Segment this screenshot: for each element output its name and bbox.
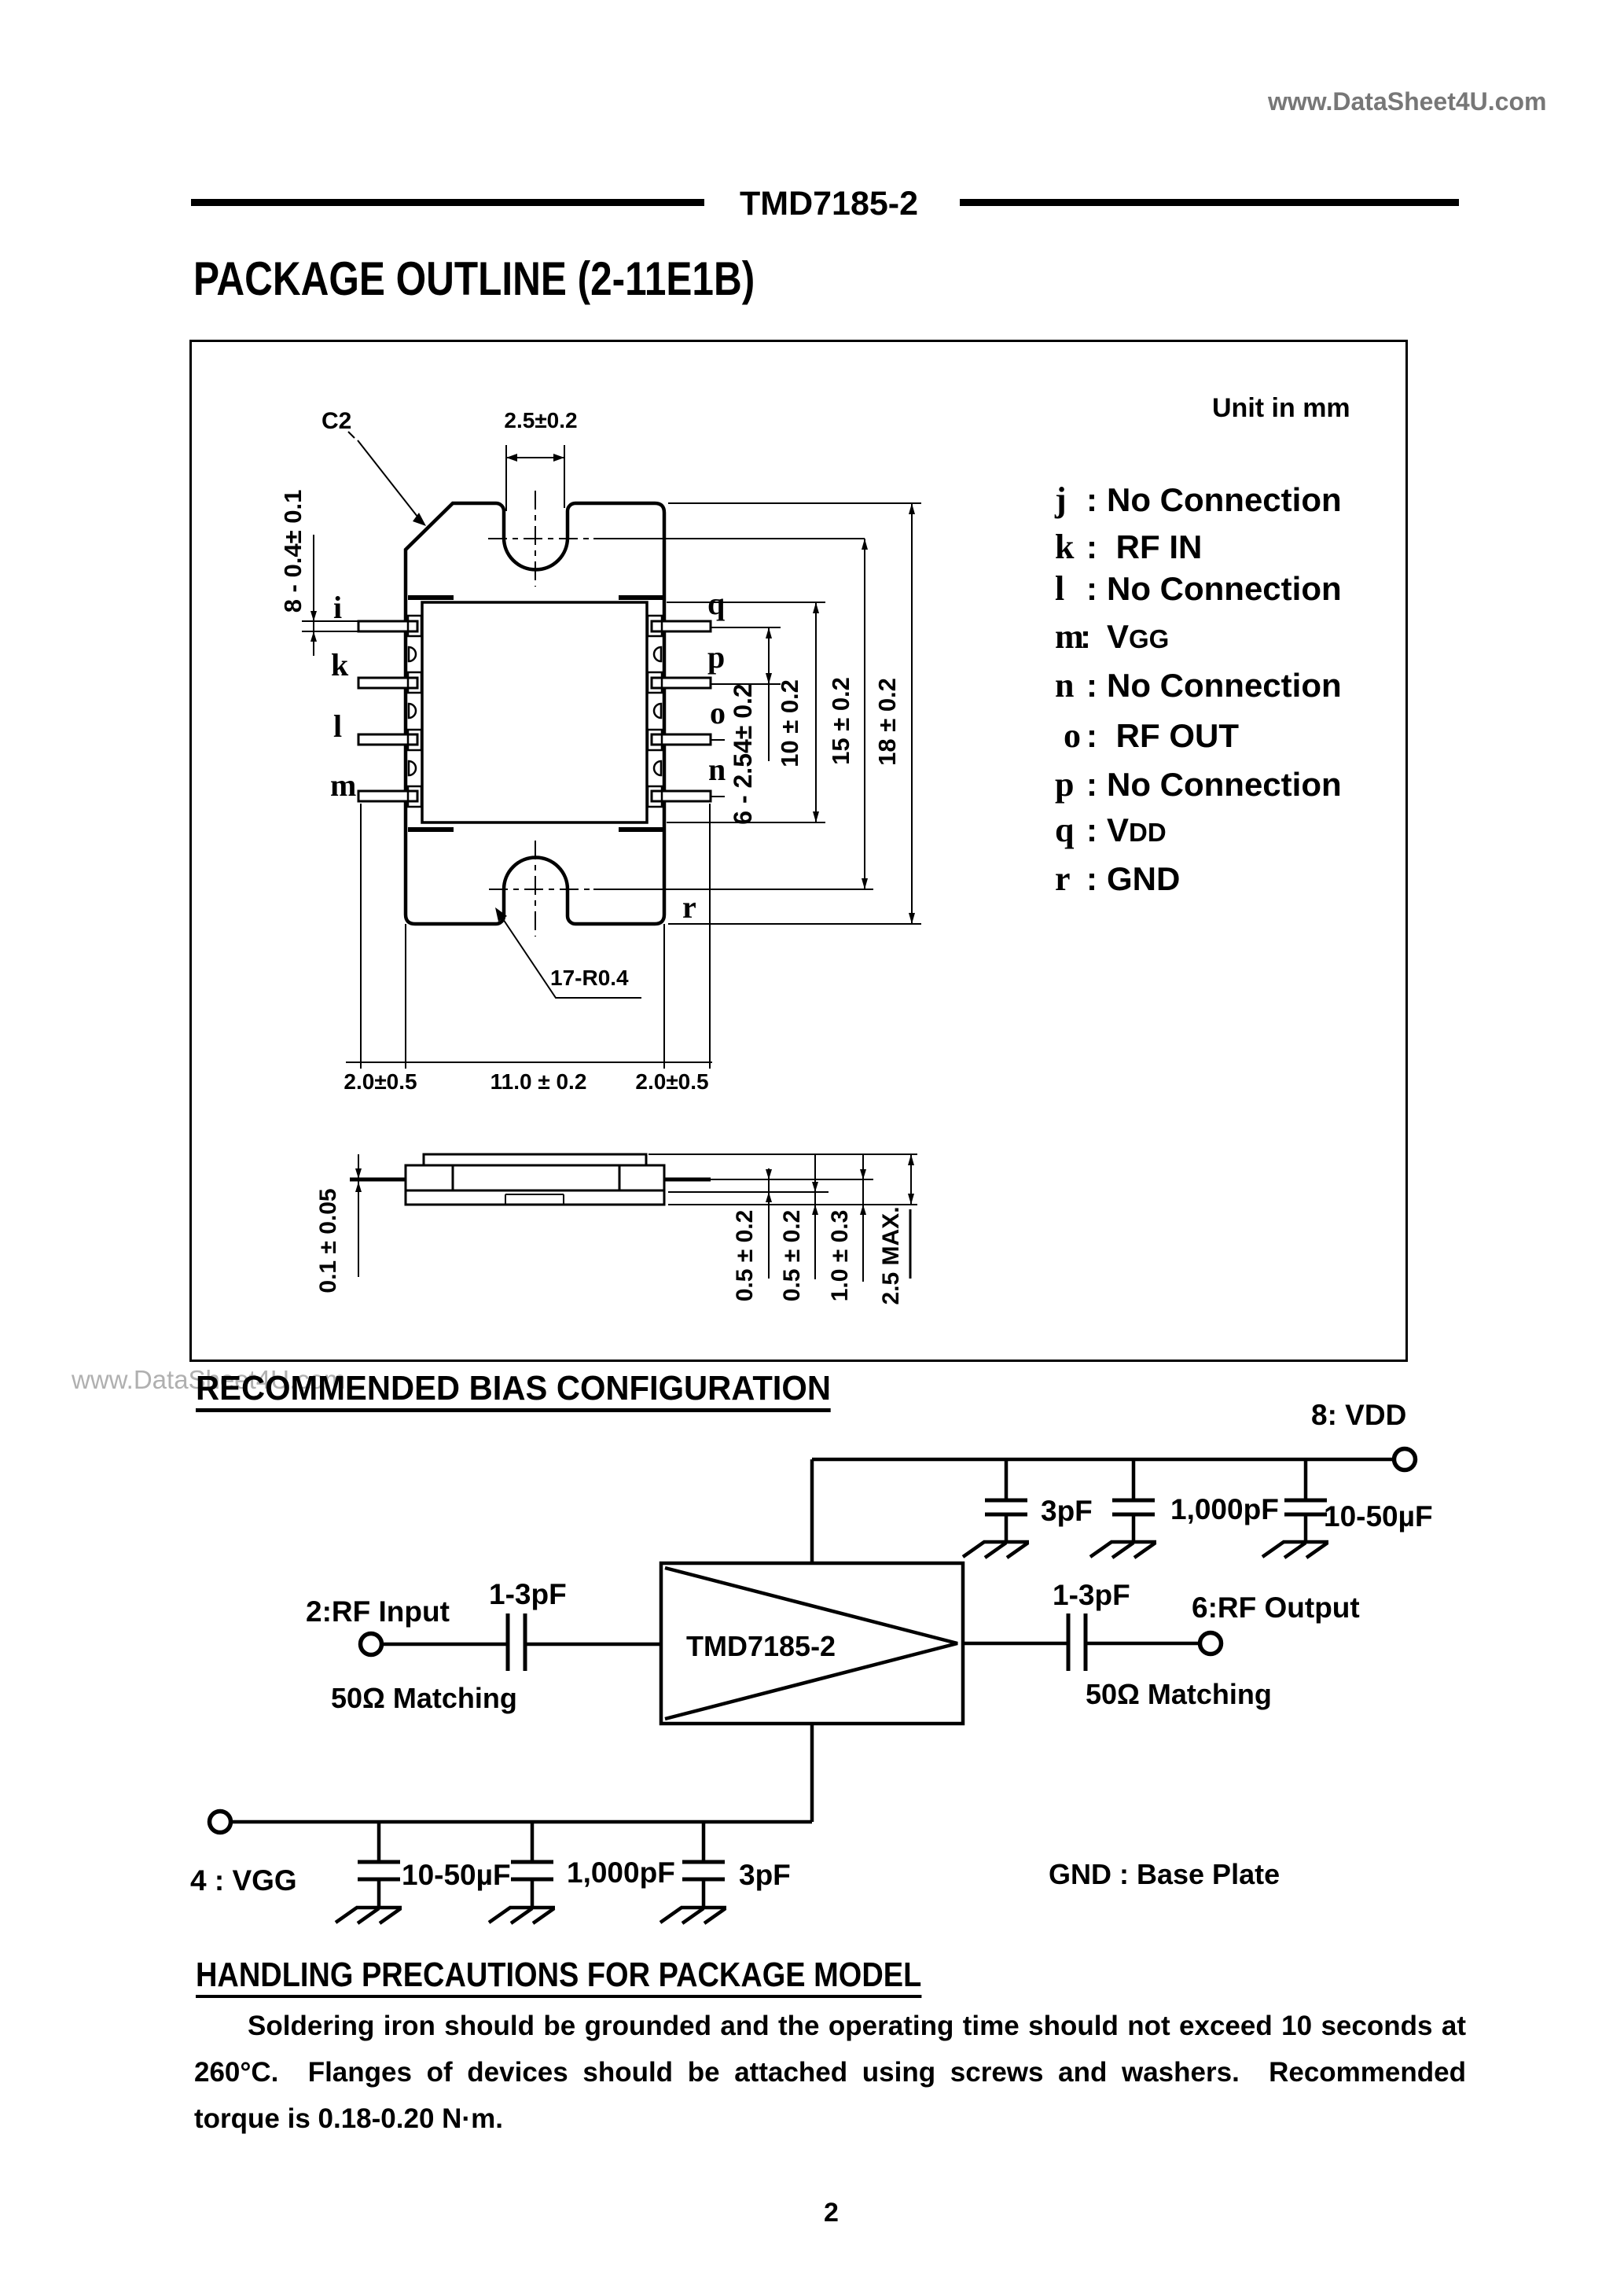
svg-text:3pF: 3pF — [739, 1859, 791, 1891]
capacitor C3 1000pF (VDD) — [1112, 1459, 1155, 1542]
wire VGG rail — [231, 1820, 812, 1824]
outline box — [189, 340, 1408, 1362]
wire C5 to output terminal — [1087, 1642, 1200, 1646]
svg-text:q: q — [707, 586, 725, 621]
page number — [824, 2198, 839, 2228]
side view leads — [350, 1178, 711, 1182]
capacitor C6 10-50uF (VGG) — [358, 1822, 400, 1908]
svg-text:1,000pF: 1,000pF — [1170, 1493, 1279, 1525]
svg-text:15 ± 0.2: 15 ± 0.2 — [827, 677, 854, 765]
svg-text:6:RF Output: 6:RF Output — [1192, 1591, 1360, 1624]
C2 leader — [348, 432, 355, 438]
svg-text:GND : Base Plate: GND : Base Plate — [1049, 1858, 1280, 1890]
ground (VDD 3pF) — [963, 1542, 1029, 1558]
capacitor C7 1000pF (VGG) — [511, 1822, 553, 1908]
body text — [194, 2003, 1466, 2142]
side right extension lines — [648, 1154, 917, 1205]
svg-text:10-50µF: 10-50µF — [1324, 1500, 1433, 1533]
svg-text:3pF: 3pF — [1041, 1495, 1093, 1527]
terminal 6 RF Output — [1200, 1633, 1222, 1654]
svg-text:17-R0.4: 17-R0.4 — [550, 966, 629, 990]
ground (VGG 3pF) — [660, 1908, 726, 1923]
lead n — [652, 791, 711, 801]
svg-text:2.0±0.5: 2.0±0.5 — [344, 1069, 417, 1094]
wire amp to C5 — [963, 1642, 1067, 1646]
holes right — [654, 647, 661, 775]
header rule right — [960, 199, 1459, 206]
dim 15 line — [864, 539, 865, 889]
side dim 1.0 line — [862, 1154, 864, 1282]
capacitor C5 1-3pF (output) — [1068, 1613, 1086, 1671]
lead o n center ticks — [711, 740, 725, 797]
svg-text:4 : VGG: 4 : VGG — [190, 1864, 297, 1897]
2.5 MAX underline — [909, 1209, 912, 1279]
ceramic corner tabs — [408, 598, 663, 830]
holes left — [409, 647, 416, 775]
header part number — [740, 185, 918, 223]
terminal 4 VGG — [210, 1812, 231, 1833]
SCHSVG — [181, 1400, 1454, 1950]
ground (VDD 10-50uF) — [1262, 1542, 1328, 1558]
dim 0.4 line — [313, 535, 314, 656]
capacitor C1 1-3pF (input) — [508, 1613, 525, 1671]
svg-text:m: m — [330, 767, 356, 803]
svg-text:11.0 ± 0.2: 11.0 ± 0.2 — [491, 1069, 587, 1094]
ceramic body rectangle — [422, 602, 647, 822]
ground (VGG 1000pF) — [489, 1908, 555, 1923]
dim 0.4 lead i extension lines — [302, 621, 358, 631]
svg-text:1-3pF: 1-3pF — [1053, 1579, 1130, 1611]
side dim 2.5max line — [910, 1154, 912, 1205]
svg-text:0.5 ± 0.2: 0.5 ± 0.2 — [779, 1210, 805, 1302]
wire amp bottom to VGG rail — [810, 1724, 814, 1822]
side view base plate — [406, 1190, 664, 1205]
dim 2.5 arrow line — [506, 457, 564, 458]
svg-text:r: r — [682, 889, 696, 925]
bottom dim extension verticals — [361, 804, 710, 1062]
bias heading — [196, 1371, 831, 1412]
svg-text:0.5 ± 0.2: 0.5 ± 0.2 — [732, 1210, 758, 1302]
dim 6-2.54 extension lines — [711, 627, 781, 684]
svg-text:k: k — [331, 647, 349, 683]
svg-text:18 ± 0.2: 18 ± 0.2 — [873, 678, 901, 766]
dim 6-2.54 line — [768, 627, 770, 761]
svg-text:o: o — [710, 695, 726, 730]
wire VDD rail to amp top — [810, 1459, 814, 1563]
lead anchor blocks left — [408, 616, 421, 807]
svg-text:8: VDD: 8: VDD — [1311, 1400, 1406, 1431]
capacitor C2 3pF (VDD) — [985, 1459, 1027, 1542]
terminal 8 VDD — [1394, 1449, 1416, 1470]
svg-text:10-50µF: 10-50µF — [402, 1859, 511, 1891]
svg-text:C2: C2 — [321, 408, 351, 434]
top-right watermark — [1268, 87, 1546, 116]
dim 2.5 extension lines — [506, 445, 564, 511]
svg-text:6 - 2.54± 0.2: 6 - 2.54± 0.2 — [729, 683, 757, 824]
capacitor C8 3pF (VGG) — [682, 1822, 725, 1908]
bottom notch centerlines — [535, 841, 536, 936]
svg-text:10 ± 0.2: 10 ± 0.2 — [776, 679, 803, 767]
side view lid — [424, 1154, 646, 1165]
svg-text:n: n — [708, 752, 726, 787]
package flange outline — [406, 503, 664, 924]
op-amp U1 triangle — [665, 1568, 957, 1719]
svg-text:1-3pF: 1-3pF — [489, 1578, 567, 1610]
lead i — [358, 621, 417, 631]
handling heading — [196, 1957, 921, 1998]
svg-text:2:RF Input: 2:RF Input — [306, 1595, 450, 1628]
svg-text:8 - 0.4± 0.1: 8 - 0.4± 0.1 — [279, 490, 307, 613]
svg-text:i: i — [333, 590, 342, 625]
dim 10 line — [815, 602, 817, 822]
svg-text:2.5 MAX.: 2.5 MAX. — [878, 1206, 904, 1304]
side dim 0.5a line — [768, 1168, 770, 1279]
watermark above heading — [72, 1365, 345, 1395]
17-R0.4 leader — [500, 914, 641, 998]
svg-text:50Ω Matching: 50Ω Matching — [331, 1682, 517, 1714]
svg-text:TMD7185-2: TMD7185-2 — [686, 1630, 836, 1662]
lead l — [358, 734, 417, 745]
terminal 2 RF Input — [361, 1634, 382, 1655]
lead m — [358, 791, 417, 801]
bottom dim ticks — [361, 1056, 710, 1069]
section title — [193, 252, 755, 306]
svg-text:p: p — [707, 639, 725, 675]
svg-text:1.0 ± 0.3: 1.0 ± 0.3 — [827, 1210, 853, 1302]
dim 18 line — [911, 503, 913, 924]
ground (VDD 1000pF) — [1090, 1542, 1156, 1558]
header rule left — [191, 199, 704, 206]
ground (VGG 10-50uF) — [336, 1908, 402, 1923]
side dim 0.1 line — [358, 1154, 359, 1277]
side dim 0.5b line — [814, 1154, 816, 1279]
wire VDD rail — [812, 1458, 1393, 1462]
op-amp U1 box — [661, 1563, 963, 1724]
DRAWSVG — [189, 340, 1403, 1357]
wire C1 to amp — [527, 1643, 661, 1647]
svg-text:l: l — [333, 708, 342, 744]
lead anchor blocks right — [648, 616, 662, 807]
svg-text:2.0±0.5: 2.0±0.5 — [635, 1069, 708, 1094]
svg-text:0.1 ± 0.05: 0.1 ± 0.05 — [315, 1188, 341, 1293]
svg-text:1,000pF: 1,000pF — [567, 1856, 675, 1889]
lead p — [652, 678, 711, 688]
lead k — [358, 678, 417, 688]
side view body — [406, 1165, 664, 1190]
dim 10 extension lines — [667, 602, 825, 822]
Unit in mm — [1212, 393, 1350, 424]
capacitor C4 10-50uF (VDD) — [1284, 1459, 1327, 1542]
PINLIST — [1055, 0, 1385, 1]
dim 18 extension lines — [668, 503, 921, 924]
svg-text:2.5±0.2: 2.5±0.2 — [504, 408, 577, 432]
svg-text:50Ω Matching: 50Ω Matching — [1086, 1678, 1272, 1710]
top notch centerlines — [535, 491, 536, 587]
bottom dim baseline — [346, 1062, 712, 1063]
wire input to C1 — [382, 1643, 506, 1647]
lead o — [652, 734, 711, 745]
lead q — [652, 621, 711, 631]
notch center extension line to 15-dim — [593, 538, 865, 539]
